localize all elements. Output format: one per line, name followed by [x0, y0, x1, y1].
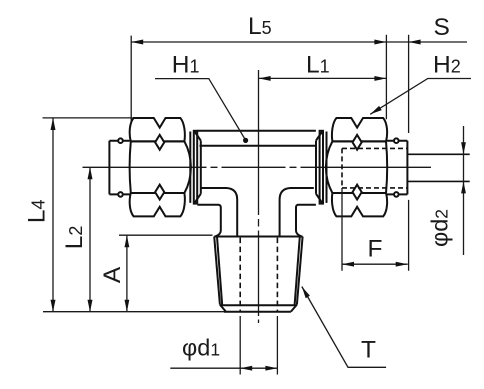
arrow phi-d2 top [461, 142, 466, 154]
arrow A top [125, 235, 130, 247]
leader dot H1 [243, 138, 248, 143]
dimension line phi-d2 [463, 126, 465, 255]
stub circle top [394, 138, 399, 143]
arrow T [302, 287, 310, 299]
svg-text:H2: H2 [433, 52, 461, 79]
nut bottom band [332, 193, 387, 216]
arrow L4 top [51, 118, 56, 130]
tube stub left: edges [109, 141, 129, 195]
dimension line L4 [52, 118, 54, 312]
arrow H2 [370, 106, 382, 114]
inserted tube on right [407, 154, 470, 181]
nut chamfer diamond top [155, 135, 164, 150]
washer between nut and body [194, 131, 197, 204]
body top silhouette [197, 130, 316, 132]
dimension and extension lines [43, 35, 472, 375]
dimension line L2 [89, 167, 91, 311]
body inner line upper [200, 145, 316, 147]
arrow A bottom [125, 300, 130, 312]
extension line for A at thread top [119, 234, 213, 236]
body inner line lower left + fillet + leg inner left [201, 188, 237, 236]
nut face edge line [189, 132, 191, 203]
thread tip chamfer edge [221, 304, 296, 306]
arrow L1 right [374, 76, 386, 81]
vertical centerline of branch leg [258, 70, 260, 323]
chamfer diagonal right [291, 305, 297, 312]
stub circle bottom [394, 192, 399, 197]
arrow phi-d2 bottom [461, 181, 466, 193]
extension lines phi-d1 [240, 316, 277, 375]
nut chamfer diamond bottom [353, 185, 362, 200]
dimension line phi-d1 [170, 367, 277, 369]
svg-text:L5: L5 [248, 13, 272, 40]
body bottom silhouette right + leg outer right [296, 205, 316, 237]
thread root line left [217, 237, 222, 306]
male taper thread [214, 237, 302, 312]
svg-text:A: A [99, 266, 126, 283]
arrow L5 left [131, 40, 143, 45]
body bottom silhouette left + leg outer left [197, 205, 220, 237]
body end face line [315, 141, 317, 194]
stub circle top [118, 138, 123, 143]
arrow F left [342, 262, 354, 267]
extension line at right nut face [385, 35, 387, 119]
washer chamfer bottom [194, 194, 201, 204]
leader T [302, 287, 386, 368]
svg-text:H1: H1 [172, 52, 200, 79]
arrow L2 bottom [88, 300, 93, 312]
washer chamfer bottom [316, 194, 323, 204]
horizontal centerline of body axis [83, 166, 432, 168]
fitting body outline [197, 131, 316, 237]
arrow S [409, 40, 421, 45]
tube stub right: edges [387, 141, 407, 195]
svg-text:L4: L4 [23, 199, 50, 223]
nut chamfer diamond top [353, 135, 362, 150]
extension line at tube stub end [408, 35, 410, 271]
arrow L1 left [259, 76, 271, 81]
dimension line L1 [259, 77, 387, 79]
nut top band [130, 118, 185, 141]
nut middle band [326, 141, 387, 193]
nut chamfer diamond bottom [155, 185, 164, 200]
thread outer taper right [297, 237, 303, 305]
washer chamfer top [316, 131, 323, 141]
svg-text:F: F [368, 236, 383, 263]
arrow phi-d1 left [240, 366, 252, 371]
arrow F right [396, 262, 408, 267]
thread outer taper left [214, 237, 220, 305]
extension line top for L4 [43, 117, 133, 119]
nut middle band [130, 141, 191, 193]
arrow L4 bottom [51, 300, 56, 312]
svg-text:L1: L1 [306, 52, 330, 79]
arrow L5 right [374, 40, 386, 45]
washer between nut and body [320, 131, 323, 204]
arrow L2 top [88, 167, 93, 179]
chamfer diagonal left [220, 305, 226, 312]
body inner line lower right + fillet + leg inner right [280, 188, 314, 236]
nut face edge line [326, 132, 328, 203]
top dimension line L5 and S [131, 41, 467, 43]
hidden bore lines in right nut [342, 148, 407, 188]
thread top face [214, 236, 302, 238]
washer chamfer top [194, 131, 201, 141]
leader H2 [370, 79, 471, 115]
thread minor diameter hidden line right [276, 238, 278, 311]
arrow phi-d1 right [265, 366, 277, 371]
nut bottom band [130, 193, 185, 216]
thread minor diameter hidden line left [239, 238, 241, 311]
extension line F left [341, 188, 343, 271]
bottom reference line and thread bottom face [43, 311, 224, 313]
svg-text:L2: L2 [61, 226, 88, 250]
right nut assembly (mirror of left about x=258.4) [316, 118, 407, 216]
thread root line right [295, 237, 300, 306]
svg-text:S: S [434, 14, 450, 41]
left nut assembly [109, 118, 200, 216]
arrowheads [51, 40, 466, 371]
leader H1 [155, 79, 246, 141]
dimension line F [342, 263, 408, 265]
svg-text:T: T [361, 337, 376, 364]
dimension line A [126, 235, 128, 312]
body end face line [200, 141, 202, 194]
nut top band [332, 118, 387, 141]
stub circle bottom [118, 192, 123, 197]
extension line left of L5 [130, 36, 132, 122]
